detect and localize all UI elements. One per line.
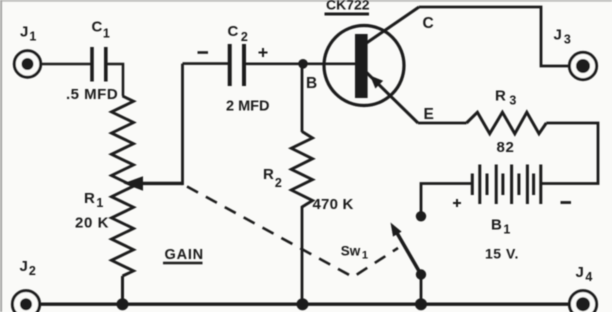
switch Sw1 fixed contact	[416, 211, 426, 221]
polarity minus sign	[198, 51, 209, 54]
svg-text:.5 MFD: .5 MFD	[66, 86, 118, 103]
svg-text:82: 82	[497, 139, 515, 156]
svg-text:B: B	[306, 75, 317, 92]
R1 wiper arm wire	[138, 182, 183, 185]
junction R2/ground	[297, 298, 309, 310]
jack J3	[569, 52, 596, 79]
wire R2 bottom to ground bus	[301, 206, 304, 304]
wire battery plus side to switch fixed contact	[421, 184, 472, 214]
resistor R3	[467, 112, 547, 133]
junction R1/ground	[117, 298, 129, 310]
polarity plus sign	[259, 48, 268, 57]
top scan edge	[0, 0, 612, 2]
jack J2	[12, 291, 39, 312]
capacitor C1	[92, 47, 106, 82]
wire wiper branch to C2	[183, 62, 229, 65]
wire C2 to transistor base	[244, 62, 356, 65]
svg-text:C: C	[423, 15, 434, 32]
battery B1 cells	[472, 165, 541, 205]
wire emitter to R3	[418, 122, 467, 125]
junction switch/ground	[415, 298, 427, 310]
transistor Q1 CK722 body	[324, 26, 404, 106]
node B junction dot	[298, 59, 308, 69]
R1 wiper arrowhead	[124, 176, 144, 191]
svg-text:470 K: 470 K	[313, 196, 354, 213]
emitter lead	[366, 72, 418, 123]
switch Sw1 arm arrowhead	[391, 223, 402, 237]
wire R3 to battery minus side	[541, 123, 598, 184]
emitter arrow (PNP, points toward base)	[370, 76, 383, 89]
wire node B down to R2	[301, 64, 304, 132]
svg-text:CK722: CK722	[326, 0, 370, 13]
wire collector to J3	[419, 7, 569, 66]
svg-text:E: E	[424, 106, 434, 123]
transistor base bar	[355, 34, 368, 98]
wire switch pivot to ground bus	[420, 275, 423, 305]
svg-text:2 MFD: 2 MFD	[226, 99, 270, 115]
wire J1 to C1	[27, 63, 91, 66]
resistor R1 (potentiometer element)	[112, 96, 134, 276]
wire R1 bottom to ground bus	[121, 276, 124, 304]
dashed mechanical link pot to switch	[187, 187, 398, 278]
bottom wire (J2 to J4 ground bus)	[26, 303, 583, 306]
wire wiper to C2 input	[181, 64, 184, 186]
svg-text:GAIN: GAIN	[165, 247, 204, 263]
svg-text:20 K: 20 K	[75, 215, 109, 232]
wire C1 to R1 top	[106, 64, 123, 96]
resistor R2	[291, 132, 312, 208]
battery plus sign	[453, 199, 461, 207]
switch Sw1 pivot contact	[416, 269, 426, 279]
switch Sw1 arm	[397, 233, 421, 275]
capacitor C2	[230, 44, 244, 86]
left scan edge	[0, 0, 2, 312]
jack J1	[14, 51, 40, 77]
collector lead	[365, 7, 419, 44]
svg-text:15 V.: 15 V.	[485, 245, 519, 261]
jack J4	[569, 291, 596, 312]
battery minus sign	[561, 201, 572, 204]
